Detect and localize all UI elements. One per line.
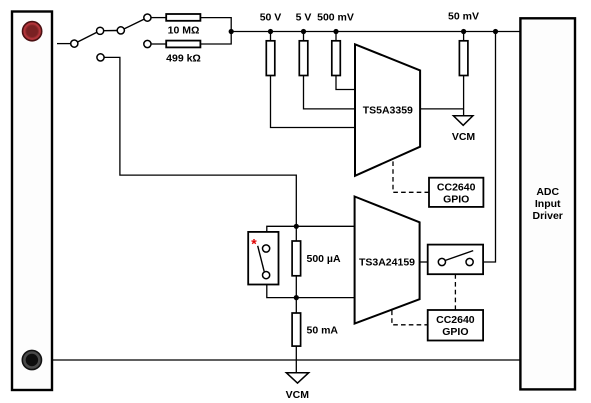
wire rail to R6 (463, 32, 465, 42)
switch S3 arm (445, 251, 473, 261)
resistor R8 50mA (292, 313, 301, 346)
node current top junction (294, 224, 299, 229)
ADC Input Driver box (520, 18, 575, 389)
wire bottom junction into U2 (296, 297, 355, 299)
svg-text:499 kΩ: 499 kΩ (166, 53, 201, 65)
wire S3 to top rail (483, 32, 495, 263)
banana jack panel (12, 12, 52, 391)
svg-text:500 µA: 500 µA (307, 253, 341, 265)
svg-text:GPIO: GPIO (443, 193, 469, 205)
wire junction to R7 (295, 226, 297, 241)
switch S2 bottom contact (263, 272, 270, 279)
node 50mV (461, 29, 466, 34)
wire junction to R8 (295, 298, 297, 313)
wire U1 output to VCM node (420, 108, 464, 110)
op-amp mux U1 TS5A3359 (355, 44, 420, 176)
svg-text:CC2640: CC2640 (437, 181, 476, 193)
switch S2 arm (258, 246, 265, 272)
switch S3 right contact (466, 258, 473, 265)
svg-text:5 V: 5 V (296, 12, 312, 24)
switch S1 mid contact b (117, 27, 124, 34)
svg-text:50 mV: 50 mV (448, 11, 479, 23)
resistor R7 500uA (292, 241, 301, 276)
CC2640 GPIO box 1 (429, 178, 483, 207)
switch S2 top contact (263, 245, 270, 252)
svg-text:ADC: ADC (536, 186, 559, 198)
wire R8 to VCM bottom (295, 346, 297, 373)
svg-text:10 MΩ: 10 MΩ (168, 24, 200, 36)
svg-text:50 mA: 50 mA (307, 325, 339, 337)
ground VCM bottom (286, 373, 308, 383)
switch S1 mid contact a (97, 27, 104, 34)
wire between mid contacts (104, 30, 118, 32)
svg-text:CC2640: CC2640 (436, 314, 475, 326)
svg-text:TS3A24159: TS3A24159 (359, 257, 415, 269)
wire R1 to node (200, 18, 231, 32)
svg-text:Driver: Driver (533, 210, 563, 222)
wire current path to TS3A24159 input node (104, 57, 296, 226)
wire R5 to mux input (336, 76, 355, 90)
svg-text:VCM: VCM (286, 389, 310, 401)
resistor R3 50V tap (266, 41, 275, 76)
wire R4 to mux input (304, 76, 355, 109)
resistor R4 5V tap (299, 41, 308, 76)
svg-text:500 mV: 500 mV (317, 12, 354, 24)
resistor R6 50mV tap (459, 41, 468, 76)
wire rail to R3 (270, 32, 272, 42)
dashed control S3 to GPIO 2 (454, 274, 456, 310)
wire rail to R4 (303, 32, 305, 42)
top rail wire to ADC (231, 31, 520, 33)
black banana jack J2 (22, 350, 41, 369)
switch S3 left contact (438, 258, 445, 265)
dashed control U1 to GPIO (393, 161, 429, 192)
svg-text:GPIO: GPIO (442, 326, 468, 338)
dashed control U2 to GPIO 2 (392, 311, 428, 325)
wire jack J1 to switch pole (57, 43, 71, 45)
wire top junction to switch S2 (267, 226, 297, 232)
node 500mV (333, 29, 338, 34)
red banana jack J1 (22, 22, 41, 41)
wire U2 output to switch S3 (420, 261, 428, 263)
wire bottom rail jack J2 to ADC (52, 359, 520, 361)
switch S3 box (428, 245, 483, 275)
op-amp mux U2 TS3A24159 (355, 197, 420, 324)
resistor R1 10 Mohm (166, 14, 200, 21)
node rail right junction (493, 29, 498, 34)
resistor R5 500mV tap (332, 41, 341, 76)
node divider top junction (229, 29, 234, 34)
CC2640 GPIO box 2 (428, 310, 483, 341)
switch S1 throw contact to 499 kohm (144, 40, 151, 47)
svg-text:50 V: 50 V (260, 12, 282, 24)
switch S1 pole contact (71, 40, 78, 47)
wire R2 to node (200, 32, 231, 45)
wire R6 to VCM node (463, 76, 465, 116)
node current bottom junction (294, 295, 299, 300)
wire R3 to mux input (271, 76, 355, 128)
wire top junction into U2 (296, 225, 355, 227)
svg-text:Input: Input (535, 198, 561, 210)
switch S1 arm mid to top throw (124, 19, 144, 29)
switch S1 throw contact to 10 Mohm (144, 14, 151, 21)
wire throw to resistor R1 (151, 17, 166, 19)
ground VCM top (453, 116, 473, 126)
svg-text:VCM: VCM (452, 131, 476, 143)
node 50V (268, 29, 273, 34)
wire S2 bottom to lower junction (267, 285, 297, 298)
node 5V (301, 29, 306, 34)
resistor R2 499 kohm (166, 41, 200, 48)
wire throw to resistor R2 (151, 43, 166, 45)
svg-text:*: * (251, 236, 257, 252)
svg-text:TS5A3359: TS5A3359 (363, 105, 413, 117)
switch S1 arm pole to mid (78, 32, 97, 42)
wire R7 to lower junction (295, 276, 297, 298)
switch S1 throw contact current path (97, 54, 104, 61)
switch S2 box (248, 232, 278, 285)
wire rail to R5 (335, 32, 337, 42)
